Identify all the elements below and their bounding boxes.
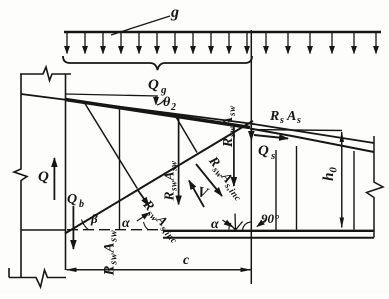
force Q arrow (left, up) [53,158,55,200]
g leader [111,16,170,35]
force Rsw As,inc 1 [138,190,149,206]
c dimension [67,269,251,271]
svg-text:β: β [90,211,98,226]
theta2 reference [66,94,159,96]
force Qb arrow (down) [72,206,74,249]
svg-text:90°: 90° [261,211,280,226]
svg-text:RswAsw: RswAsw [162,160,179,202]
stirrup line x=65.5 [65,74,67,270]
stirrup line x=276 [275,150,277,230]
stirrup line x=354 [353,151,355,230]
inclined bar 2 [176,117,197,153]
svg-text:Q: Q [38,169,49,185]
V force arrow [189,181,204,208]
h0 reference line [252,130,342,131]
svg-text:RswAsw: RswAsw [220,105,237,148]
svg-text:R: R [269,109,279,124]
section line x=251 [250,30,252,284]
svg-text:h0: h0 [321,167,340,181]
svg-text:RswAs,inc: RswAs,inc [138,196,185,246]
bottom face left [21,229,65,231]
svg-text:Q: Q [258,143,269,159]
thick compression line [66,100,251,128]
bottom reinforcement double line [163,230,374,232]
svg-text:s: s [296,115,301,126]
thin top face line [21,94,374,143]
force Rsw Asw arrow mid [178,117,180,205]
svg-text:A: A [286,109,296,124]
svg-text:Q: Q [67,192,77,207]
force Rsw Asw arrow right [233,126,235,186]
bottom-left cut edge [9,268,66,287]
anchor fan [228,214,243,231]
svg-text:θ: θ [163,95,171,110]
alpha2 arrow [223,220,232,227]
right cut edge [367,136,384,238]
force Rsw As,inc 2 [196,164,222,196]
svg-text:RswAs,inc: RswAs,inc [203,153,249,204]
top horizontal cut edge [20,67,71,81]
svg-text:V: V [196,184,212,202]
svg-text:b: b [79,199,84,210]
stirrup line x=296.5 [296,146,298,230]
svg-text:2: 2 [170,102,176,113]
brace Qg [63,56,252,70]
h0 dimension [341,132,343,227]
stirrup line x=119.5 [119,108,121,230]
svg-text:RswAsw: RswAsw [102,230,120,277]
svg-text:α: α [122,216,130,231]
load line [64,31,381,34]
alpha1 arc + arrow [144,222,149,230]
svg-text:α: α [211,217,219,232]
svg-text:Q: Q [148,77,159,93]
svg-text:s: s [279,115,284,126]
inclined crack [65,121,253,234]
svg-text:g: g [170,4,179,21]
load arrows [67,33,376,54]
force Rs As arrow (right) [254,135,288,139]
dashed reference line [67,229,162,231]
svg-text:s: s [270,150,275,162]
90 deg arc + arrow [243,222,252,231]
beta arc [82,220,89,230]
left vertical cut edge [14,74,27,277]
force Qs arrow (down) [250,129,252,140]
svg-text:c: c [183,253,190,268]
inclined bar 1 [84,102,137,189]
